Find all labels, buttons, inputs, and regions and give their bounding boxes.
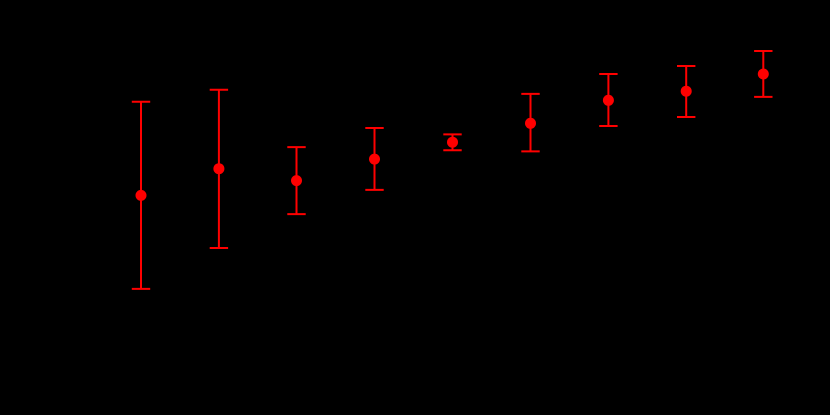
marker point 6 — [525, 118, 536, 129]
error bar point 5 — [443, 134, 461, 150]
error bar point 2 — [210, 90, 228, 248]
error bar point 3 — [287, 147, 305, 214]
marker point 2 — [213, 163, 224, 174]
marker point 7 — [603, 95, 614, 106]
marker point 3 — [291, 175, 302, 186]
marker point 9 — [758, 69, 769, 80]
error bar point 6 — [521, 94, 539, 151]
marker point 1 — [136, 190, 147, 201]
error bar point 7 — [599, 74, 617, 126]
error bar point 8 — [677, 66, 695, 117]
marker point 8 — [681, 86, 692, 97]
error bar point 9 — [754, 51, 772, 97]
error bar point 1 — [132, 102, 150, 289]
marker point 5 — [447, 137, 458, 148]
marker point 4 — [369, 154, 380, 165]
error bar point 4 — [365, 128, 383, 190]
